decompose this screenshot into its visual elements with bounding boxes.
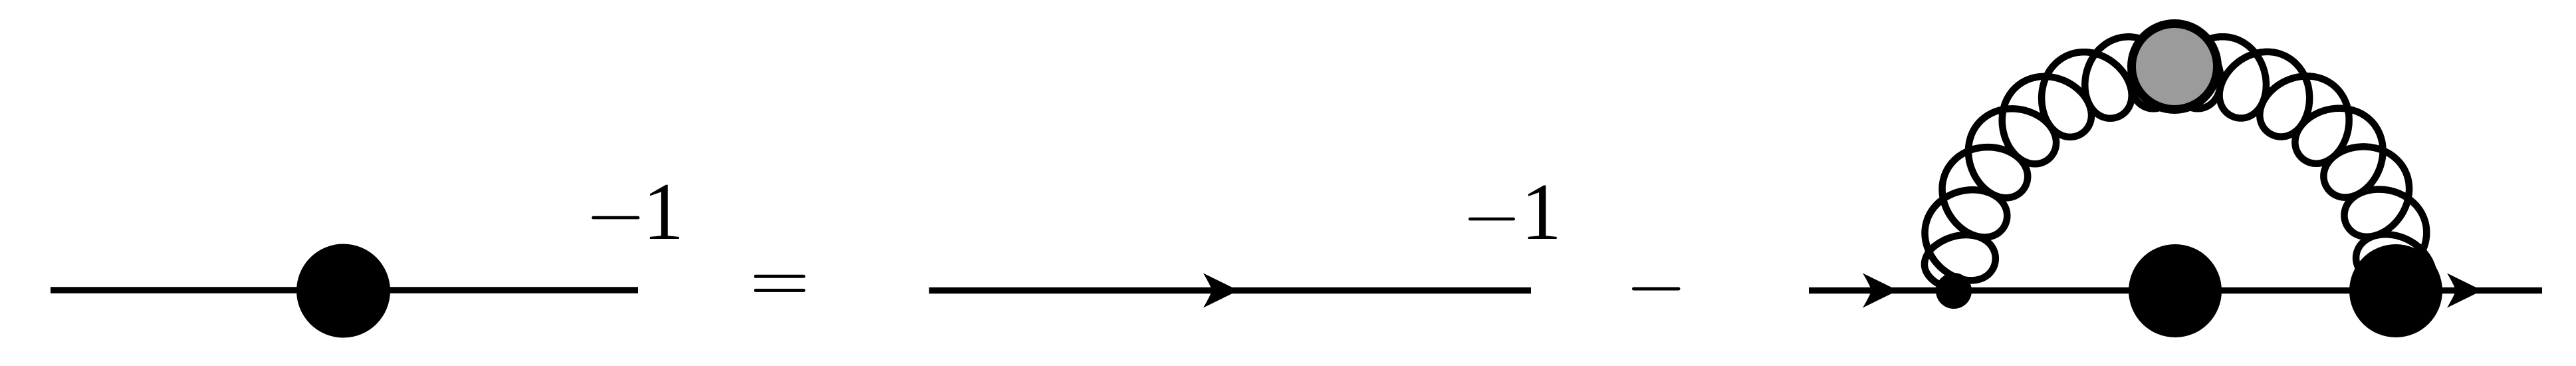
gluon coil arc	[1925, 32, 2434, 301]
arrow leaving loop term	[2447, 274, 2482, 308]
label: superscript minus of -1 (term 1)	[592, 216, 640, 220]
blob: dressed quark-gluon vertex	[2349, 244, 2442, 337]
blob: dressed quark propagator inside loop	[2129, 244, 2222, 337]
vertex: bare quark-gluon vertex dot	[1936, 273, 1972, 309]
operator: minus sign	[1632, 287, 1681, 291]
wire: quark line of loop term (term 3)	[1809, 287, 2542, 294]
label: superscript minus of -1 (term 2)	[1468, 218, 1515, 221]
operator: equals sign	[754, 275, 806, 278]
wire: dressed quark propagator line (term 1)	[51, 287, 638, 293]
arrow on bare propagator	[1203, 274, 1238, 308]
svg-text:1: 1	[643, 166, 684, 257]
blob: dressed gluon propagator (gray)	[2132, 24, 2218, 110]
arrow entering loop term	[1863, 274, 1898, 308]
wire: bare quark propagator line (term 2)	[929, 287, 1532, 294]
svg-text:1: 1	[1521, 167, 1562, 257]
blob: dressed quark propagator (term 1)	[296, 244, 390, 338]
